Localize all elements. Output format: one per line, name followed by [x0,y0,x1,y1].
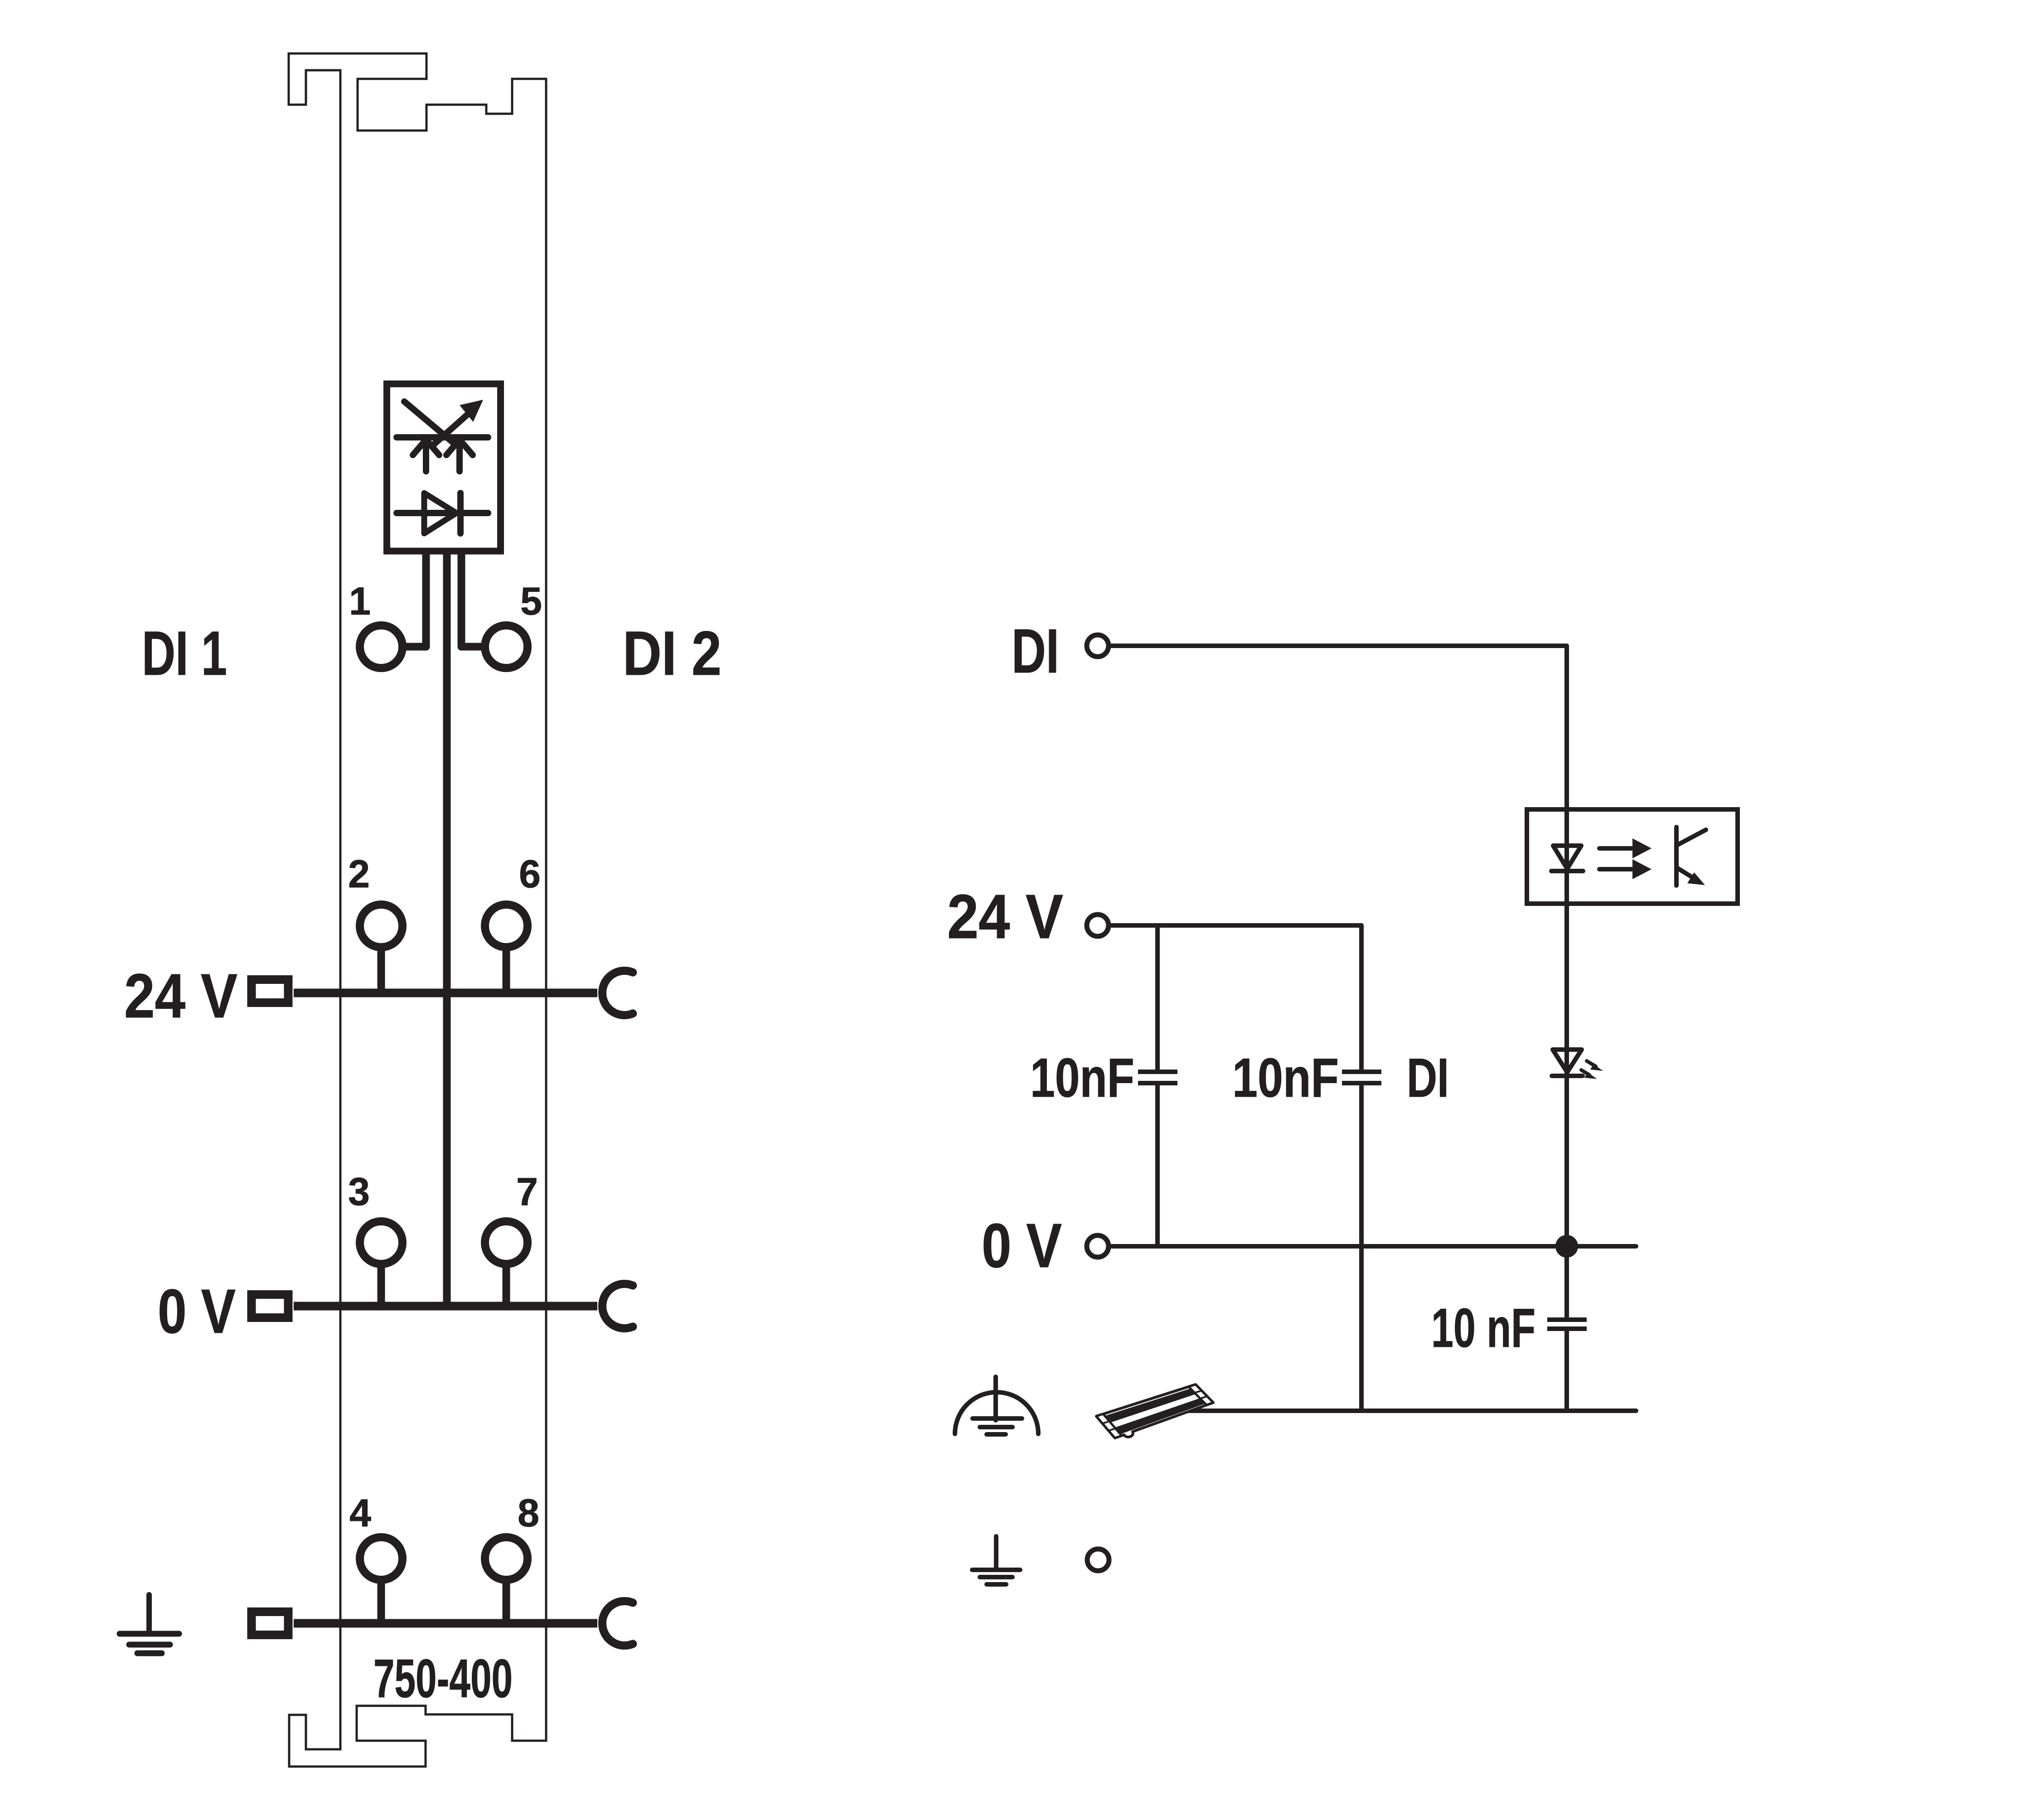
svg-text:0 V: 0 V [982,1211,1062,1281]
svg-text:10nF: 10nF [1030,1047,1134,1108]
svg-text:1: 1 [349,580,371,623]
svg-text:6: 6 [519,852,541,896]
svg-text:DI 2: DI 2 [623,619,722,688]
svg-text:DI 1: DI 1 [142,619,227,688]
svg-text:4: 4 [349,1491,371,1535]
svg-text:2: 2 [348,852,370,896]
svg-text:3: 3 [348,1170,370,1214]
svg-text:8: 8 [518,1491,539,1535]
svg-text:10nF: 10nF [1232,1047,1339,1108]
svg-text:DI: DI [1012,616,1059,686]
svg-text:0 V: 0 V [158,1277,236,1346]
svg-text:10 nF: 10 nF [1431,1297,1535,1359]
svg-text:750-400: 750-400 [373,1648,513,1709]
svg-text:24 V: 24 V [947,882,1063,952]
svg-text:5: 5 [520,580,542,623]
svg-text:DI: DI [1407,1047,1449,1108]
svg-text:7: 7 [516,1170,538,1214]
svg-text:24 V: 24 V [124,961,237,1031]
